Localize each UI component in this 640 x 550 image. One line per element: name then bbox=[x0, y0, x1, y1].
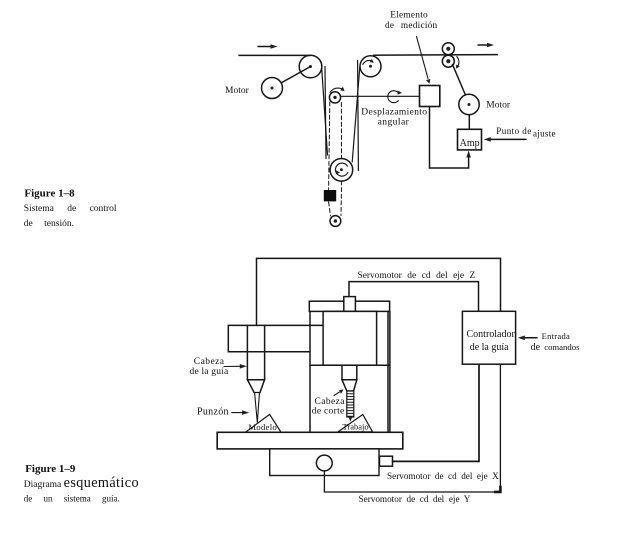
measuring element box bbox=[420, 86, 440, 107]
svg-text:ajuste: ajuste bbox=[533, 128, 556, 138]
table bbox=[217, 432, 403, 449]
pointer cabeza de la guia bbox=[224, 364, 247, 369]
link line pulley to measuring box bbox=[341, 95, 420, 97]
line motor to amp bbox=[468, 115, 470, 130]
pinch roller lower bbox=[442, 55, 454, 67]
x motor block bbox=[380, 456, 393, 466]
svg-text:Elemento: Elemento bbox=[390, 10, 428, 20]
gantry left wall bbox=[309, 311, 311, 432]
web span right bbox=[374, 54, 498, 57]
svg-text:de corte: de corte bbox=[312, 407, 345, 417]
svg-text:de un sistema guía.: de un sistema guía. bbox=[24, 494, 120, 504]
web exit arrow bbox=[478, 43, 494, 48]
y wire bbox=[324, 365, 500, 493]
motor M2 bbox=[459, 94, 479, 114]
x wire bbox=[393, 365, 480, 462]
pointer to measuring element bbox=[417, 37, 431, 84]
driven roller right with rotation arrow bbox=[360, 56, 381, 77]
cutter taper bbox=[342, 380, 357, 391]
gantry right wall bbox=[388, 311, 390, 432]
svg-text:de comandos: de comandos bbox=[531, 342, 580, 353]
svg-text:Trabajo: Trabajo bbox=[343, 422, 369, 432]
feedback path bbox=[430, 107, 471, 169]
svg-text:angular: angular bbox=[378, 117, 410, 127]
svg-text:Servomotor de cd del eje Z: Servomotor de cd del eje Z bbox=[358, 271, 476, 281]
svg-text:Cabeza: Cabeza bbox=[194, 357, 225, 367]
cutter screw bbox=[347, 391, 354, 422]
ball screw circle bbox=[316, 455, 332, 471]
svg-text:Modelo: Modelo bbox=[248, 422, 277, 432]
svg-text:Punto de: Punto de bbox=[496, 126, 531, 136]
workpiece wedge Trabajo bbox=[338, 415, 373, 432]
setpoint arrow bbox=[484, 137, 526, 142]
model wedge Modelo bbox=[246, 414, 282, 432]
housing bottom shelf bbox=[310, 364, 390, 366]
bottom pulley bbox=[330, 216, 341, 227]
controller box bbox=[462, 311, 515, 364]
label Entrada de comandos bbox=[531, 331, 580, 353]
svg-text:Punzón: Punzón bbox=[197, 406, 229, 417]
web descending left pair bbox=[321, 62, 327, 159]
svg-text:Amp: Amp bbox=[460, 138, 480, 149]
svg-text:Cabeza: Cabeza bbox=[315, 397, 346, 407]
web feed arrow left bbox=[258, 44, 278, 49]
svg-text:Motor: Motor bbox=[225, 86, 250, 96]
spindle housing bbox=[323, 311, 377, 365]
svg-text:Servomotor de cd del eje Y: Servomotor de cd del eje Y bbox=[359, 494, 471, 504]
cord dashed right bbox=[340, 103, 343, 216]
web ascending right pair bbox=[352, 61, 360, 171]
guide pulley small bbox=[329, 92, 340, 103]
svg-text:Entrada: Entrada bbox=[542, 331, 571, 341]
label Punto de ajuste bbox=[496, 126, 555, 138]
cutter stem bbox=[342, 365, 357, 380]
cord dashed left bbox=[329, 102, 331, 216]
svg-text:de la guía: de la guía bbox=[470, 342, 509, 353]
motor pulley left bbox=[262, 78, 283, 99]
belt shaft line bbox=[272, 67, 311, 89]
shaft motor to pinch bbox=[453, 65, 467, 98]
gantry top bar bbox=[309, 301, 389, 311]
caption Figure 1-8 bbox=[24, 187, 117, 229]
web span left bbox=[239, 54, 311, 56]
pinch roller upper bbox=[442, 43, 454, 55]
caption Figure 1-9 bbox=[24, 463, 139, 504]
svg-text:Desplazamiento: Desplazamiento bbox=[361, 108, 427, 118]
idler roller R1 bbox=[299, 55, 322, 78]
svg-text:de tensión.: de tensión. bbox=[24, 219, 74, 229]
z wire bbox=[349, 282, 479, 312]
label Cabeza de corte bbox=[312, 397, 345, 417]
angular displacement rotation symbol bbox=[388, 91, 402, 103]
svg-text:Figure 1–8: Figure 1–8 bbox=[24, 187, 75, 199]
guide taper bbox=[247, 380, 264, 393]
rotation arrow at pinch rollers bbox=[456, 57, 460, 69]
z motor block bbox=[344, 297, 356, 312]
svg-text:de la guía: de la guía bbox=[190, 367, 230, 377]
svg-text:Servomotor de cd del eje X: Servomotor de cd del eje X bbox=[387, 471, 499, 481]
pointer punzon bbox=[232, 410, 249, 415]
svg-text:Controlador: Controlador bbox=[467, 329, 516, 340]
pointer cabeza de corte bbox=[334, 390, 344, 396]
loop top line bbox=[257, 258, 501, 325]
svg-text:Figure 1–9: Figure 1–9 bbox=[25, 463, 76, 475]
command input arrow bbox=[518, 336, 537, 341]
svg-text:Sistema de control: Sistema de control bbox=[24, 204, 117, 214]
stylus needle bbox=[255, 393, 260, 423]
rotation arrow above guide pulley bbox=[330, 87, 345, 93]
label Elemento de medicion bbox=[385, 10, 438, 31]
label Desplazamiento angular bbox=[361, 108, 427, 128]
label Cabeza de la guia bbox=[190, 357, 230, 377]
dancer roller bbox=[330, 159, 353, 182]
saddle bbox=[270, 449, 379, 476]
amplifier box bbox=[458, 129, 482, 150]
weight block bbox=[324, 190, 336, 201]
svg-text:Diagrama esquemático: Diagrama esquemático bbox=[24, 475, 139, 491]
guide arm bbox=[228, 325, 323, 351]
svg-text:de medición: de medición bbox=[385, 21, 438, 31]
guide column bbox=[247, 325, 264, 379]
svg-text:Motor: Motor bbox=[486, 101, 511, 111]
